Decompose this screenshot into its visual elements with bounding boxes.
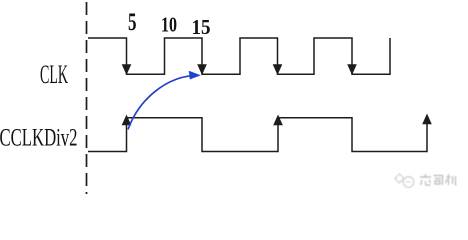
rising-edge arrow B1 on CCLKDiv2 [122, 115, 132, 126]
char 芯 [420, 174, 431, 185]
watermark text 芯司机 (drawn strokes) [420, 174, 457, 185]
svg-text:10: 10 [161, 13, 177, 37]
char 机 [446, 174, 457, 185]
falling-edge arrow A1 on CLK at t=5 [122, 64, 132, 75]
falling-edge arrow A3 on CLK [273, 64, 283, 75]
svg-text:15: 15 [192, 15, 211, 39]
rising-edge arrow B2 on CCLKDiv2 [273, 115, 283, 126]
falling-edge arrow A2 on CLK at t=15 [197, 64, 207, 75]
svg-text:5: 5 [128, 9, 137, 36]
watermark logo: chip diamond [395, 174, 414, 187]
rising-edge arrow B3 on CCLKDiv2 [422, 114, 432, 125]
wire: CCLKDiv2 waveform [88, 118, 427, 152]
dashed reference line at t=0 [86, 2, 88, 194]
char 司 [434, 176, 443, 186]
svg-text:CLK: CLK [40, 60, 68, 89]
blue causality arrow from CCLKDiv2 rising edge to CLK falling edge at 15 [128, 71, 201, 130]
wire: CLK waveform [88, 38, 390, 74]
svg-text:CCLKDiv2: CCLKDiv2 [0, 125, 78, 152]
falling-edge arrow A4 on CLK [347, 64, 357, 75]
watermark logo: circle face [403, 177, 414, 188]
